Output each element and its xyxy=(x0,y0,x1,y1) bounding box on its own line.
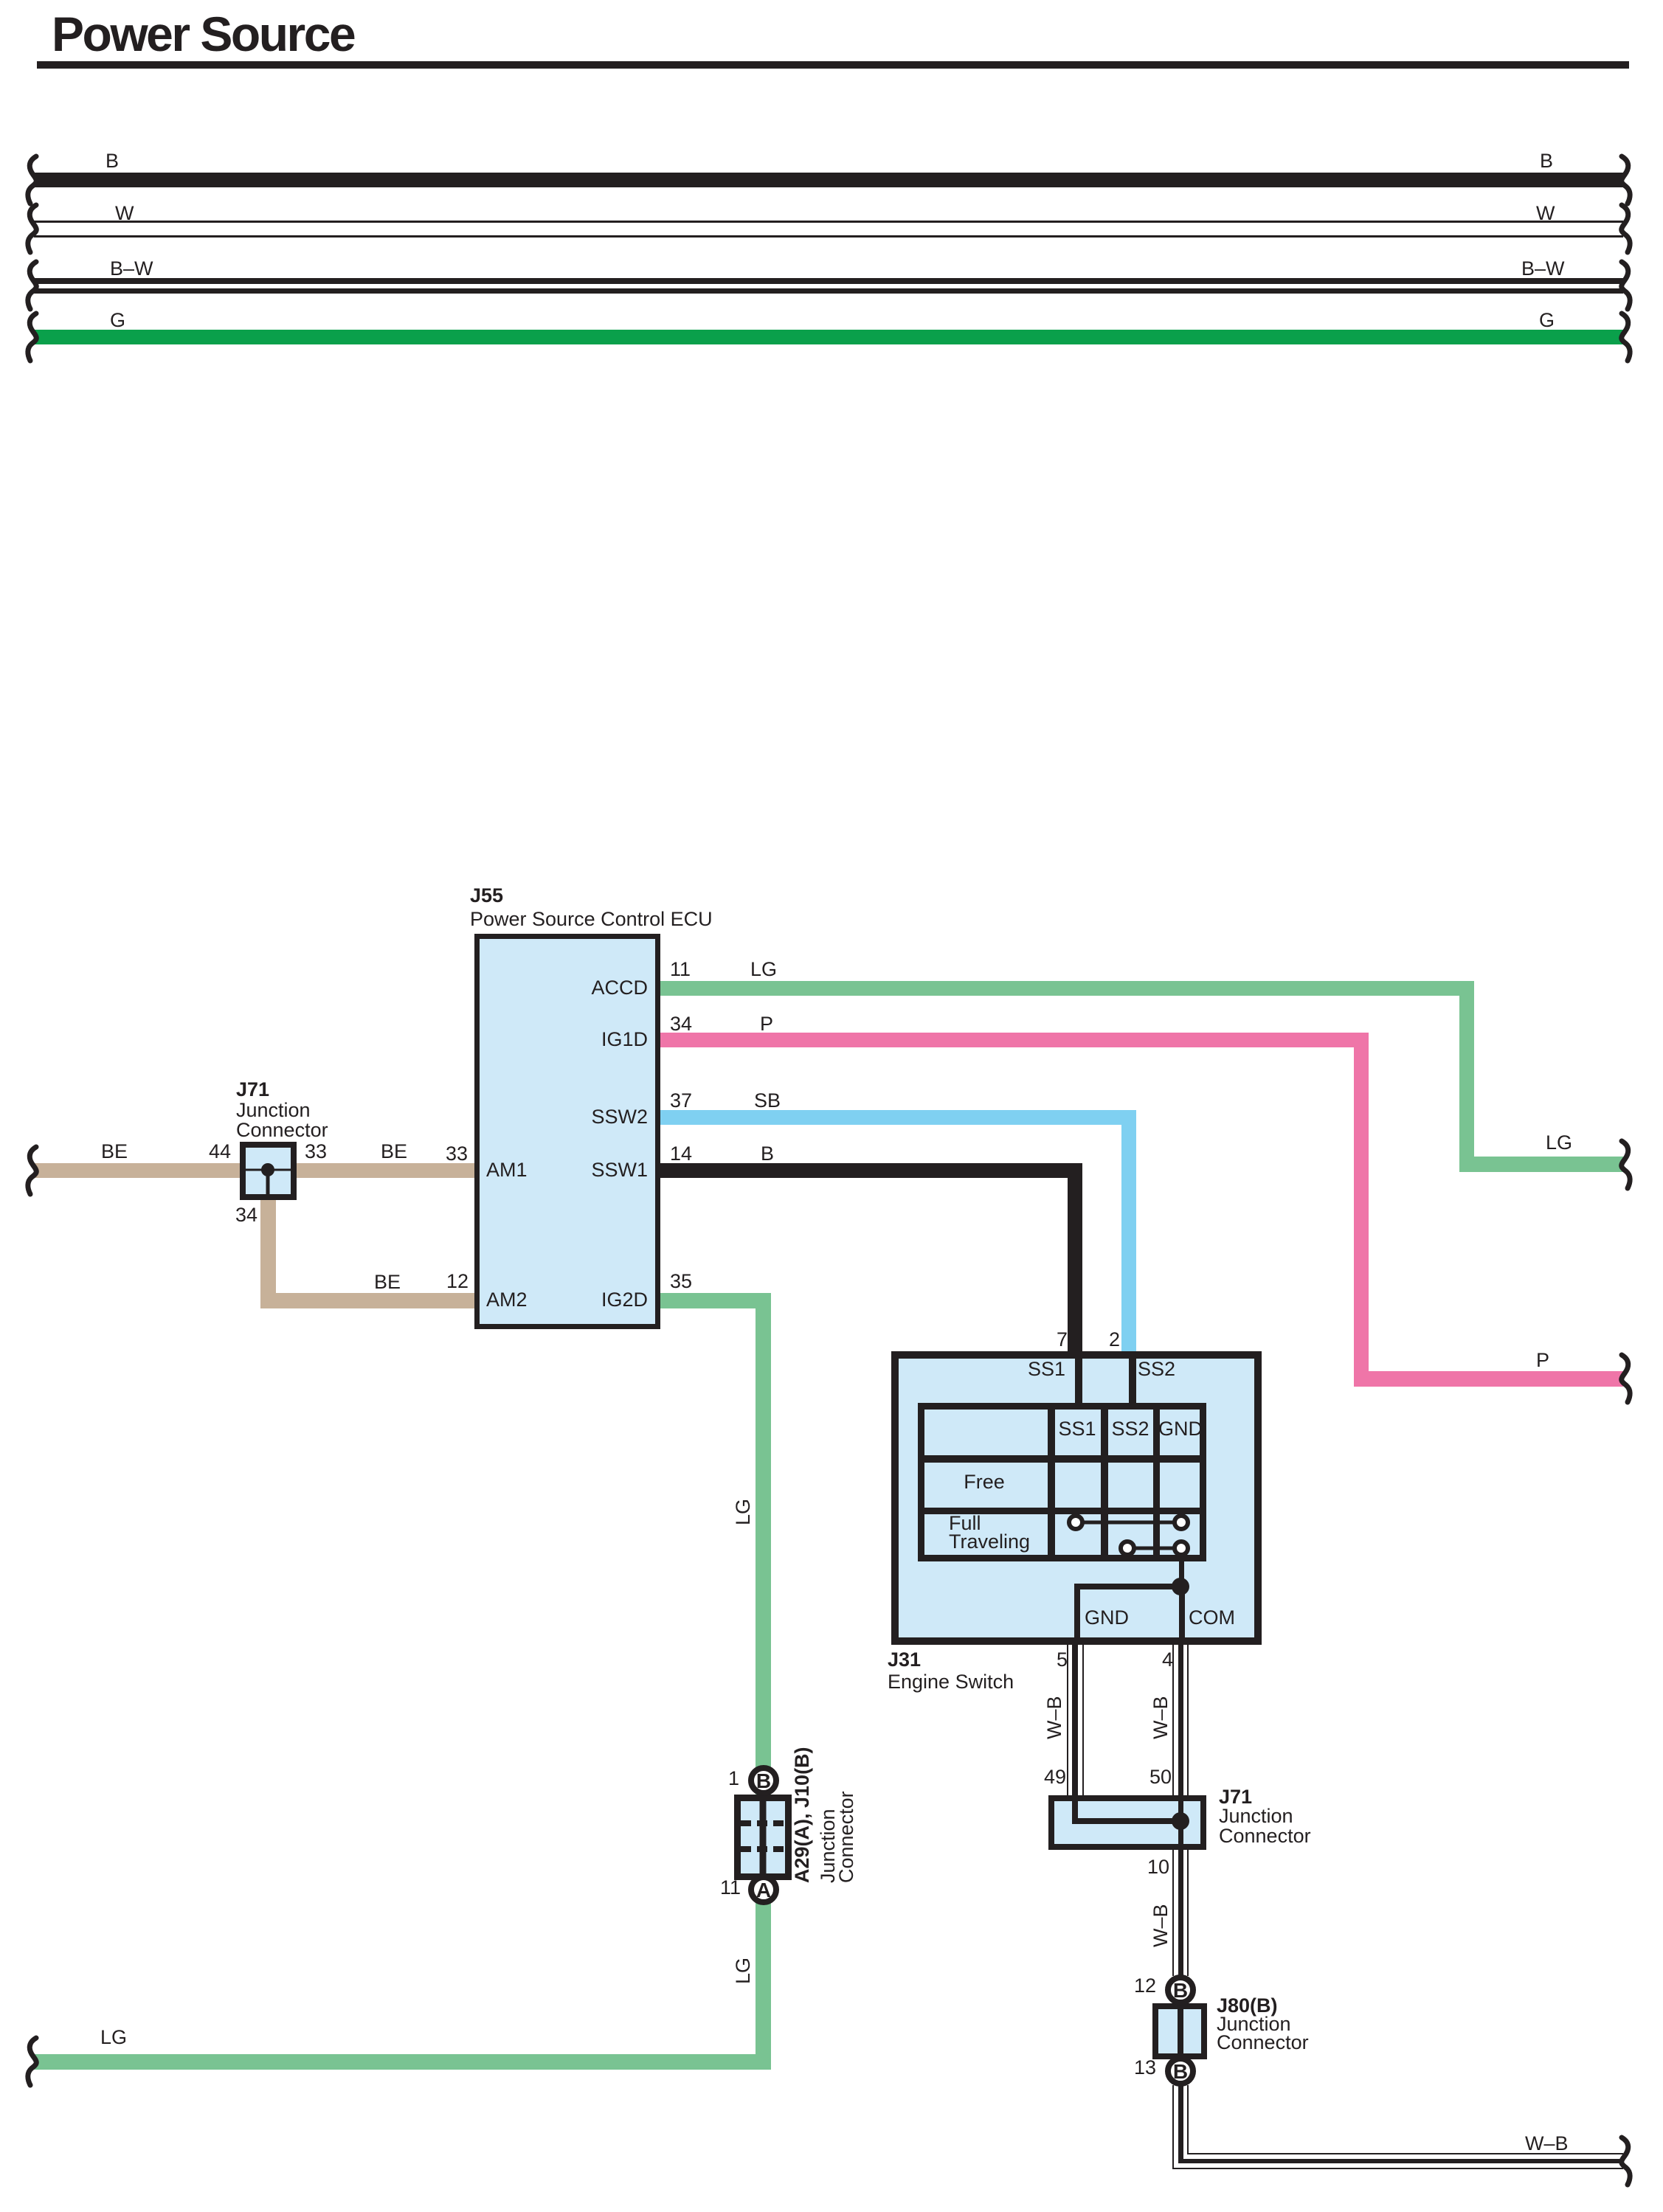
svg-text:B: B xyxy=(756,1769,771,1792)
svg-text:B: B xyxy=(1173,2060,1188,2083)
svg-text:B: B xyxy=(1173,1979,1188,2002)
svg-text:A: A xyxy=(756,1879,771,1901)
